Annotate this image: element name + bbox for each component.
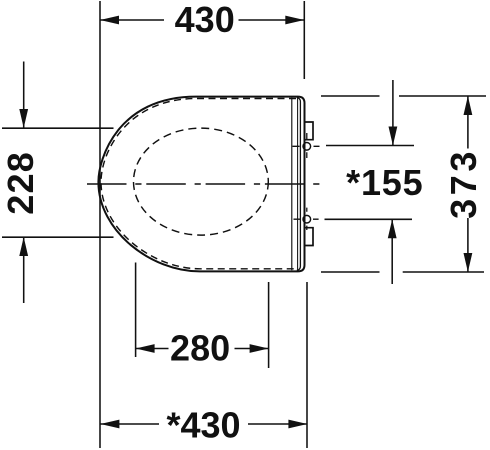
hinge U1 bracket upper xyxy=(305,122,314,140)
wire 228 bottom extension line xyxy=(2,236,114,238)
wire bottom *430 dimension line left segment xyxy=(100,423,159,425)
wire 228 upper arrow line xyxy=(23,62,25,129)
wire *155 upper arrow line xyxy=(392,80,394,146)
seat edge inner vertical line 3 xyxy=(297,98,301,271)
node arrow up 228 xyxy=(19,237,28,256)
node center mark vertical upper hinge xyxy=(306,133,308,158)
wire 373 top extension line right part xyxy=(399,95,486,97)
svg-text:280: 280 xyxy=(170,328,230,369)
wire 280 dimension line left segment xyxy=(136,348,169,350)
node center mark horizontal upper hinge xyxy=(293,145,320,147)
wire *155 lower extension line xyxy=(325,218,413,220)
node arrow up 373 xyxy=(464,96,473,115)
wire 373 bottom extension line left part xyxy=(321,271,380,273)
node arrow right of *430 xyxy=(288,420,307,429)
node arrow left of top 430 xyxy=(100,16,119,25)
svg-text:*155: *155 xyxy=(346,162,423,203)
hinge U2 circle lower xyxy=(303,215,311,223)
wire *155 upper extension line xyxy=(326,145,414,147)
wire 228 top extension line xyxy=(2,127,114,129)
wire bottom-right extension line xyxy=(306,282,308,448)
wire top 430 dimension line left segment xyxy=(100,19,164,21)
wire 373 bottom extension line right part xyxy=(403,271,484,273)
node arrow down *155 xyxy=(389,127,398,146)
svg-text:430: 430 xyxy=(175,0,235,40)
wire left main extension line xyxy=(99,1,101,448)
wire top 430 dimension line right segment xyxy=(239,19,305,21)
node arrow right of top 430 xyxy=(285,16,304,25)
node arrow down 373 xyxy=(464,253,473,272)
svg-text:373: 373 xyxy=(443,148,484,219)
hinge U1 circle upper xyxy=(303,143,311,151)
wire 280 left extension line xyxy=(135,263,137,358)
wire 373 top extension line left part xyxy=(321,95,380,97)
hinge U2 bracket lower xyxy=(305,228,314,246)
wire 280 right extension line xyxy=(268,282,270,368)
wire top-right extension line xyxy=(303,1,305,79)
wire 280 dimension line right segment xyxy=(235,348,269,350)
seat inner hidden outline dashed xyxy=(101,99,296,269)
wire bottom *430 dimension line right segment xyxy=(248,423,307,425)
node arrow left of *430 xyxy=(100,420,119,429)
svg-text:228: 228 xyxy=(0,151,41,215)
svg-text:*430: *430 xyxy=(166,404,240,445)
seat edge inner vertical line 1 xyxy=(291,98,293,270)
node center mark horizontal lower hinge xyxy=(294,218,319,220)
wire 228 lower arrow line xyxy=(23,237,25,303)
node arrow down 228 xyxy=(19,109,28,128)
node arrow left of 280 xyxy=(136,344,155,353)
node arrow right of 280 xyxy=(250,344,269,353)
wire 373 dimension line upper segment xyxy=(467,96,469,149)
node arrow up *155 xyxy=(388,219,397,238)
wire *155 lower arrow line xyxy=(391,219,393,284)
wire horizontal centerline dash-dot xyxy=(87,183,321,185)
seat outer outline xyxy=(98,97,304,272)
wire 373 dimension line lower segment xyxy=(467,218,469,272)
seat edge inner vertical line 2 xyxy=(297,98,299,270)
node center mark vertical lower hinge xyxy=(306,208,308,230)
seat opening dashed ellipse xyxy=(134,128,269,235)
